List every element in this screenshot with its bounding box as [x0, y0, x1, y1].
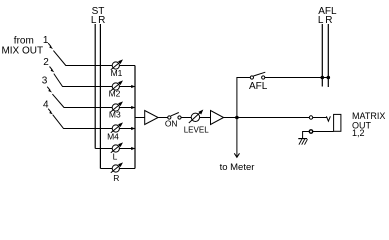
arrowhead to Meter: [234, 153, 239, 157]
op-amp buffer 2: [211, 111, 224, 125]
jack tip contact circle: [309, 116, 312, 119]
wire ON switch to LEVEL pot: [181, 117, 191, 119]
wire row R: [100, 168, 135, 170]
wire row M3: [64, 107, 135, 109]
junction arrow L: [131, 147, 135, 150]
wire input 2 stub arrow: [50, 67, 55, 73]
wire amp1 to ON switch: [158, 117, 168, 119]
junction dot AFL L: [321, 76, 325, 80]
wire summing bus: [134, 66, 136, 169]
jack tip V notch: [326, 116, 330, 121]
switch ON: [165, 113, 181, 129]
wire row M1: [66, 65, 136, 67]
wire AFL R vertical bus: [327, 24, 329, 87]
switch input 3 lever: [52, 94, 64, 107]
svg-text:1: 1: [43, 35, 49, 46]
svg-text:M1: M1: [111, 68, 123, 78]
label MATRIX OUT 1,2: [352, 111, 385, 138]
svg-text:M4: M4: [107, 132, 119, 142]
svg-text:R: R: [113, 173, 119, 183]
svg-text:L: L: [318, 15, 324, 26]
wire AFL branch vertical: [237, 78, 250, 118]
potentiometer M4: [107, 122, 123, 141]
svg-text:ON: ON: [165, 119, 178, 129]
potentiometer L: [111, 142, 123, 161]
wire row M2: [62, 86, 135, 88]
switch input 4 lever: [53, 115, 64, 129]
potentiometer LEVEL: [184, 110, 209, 135]
svg-text:L: L: [113, 151, 118, 161]
wire row L: [95, 148, 135, 150]
junction arrow M3: [131, 106, 135, 109]
svg-text:AFL: AFL: [249, 81, 268, 92]
label from MIX OUT: [1, 36, 43, 57]
potentiometer M2: [109, 80, 123, 98]
svg-text:M3: M3: [109, 110, 121, 120]
junction dot tap: [235, 116, 239, 120]
wire sleeve to ground: [303, 132, 310, 139]
ground: [298, 139, 307, 145]
wire tip contact: [313, 117, 327, 119]
wire AFL L vertical bus: [321, 24, 323, 87]
svg-text:R: R: [98, 15, 105, 26]
wire meter branch: [236, 118, 238, 157]
node AFL label: [318, 6, 337, 26]
junction dot AFL R: [327, 76, 331, 80]
wire row M4: [63, 128, 135, 130]
junction arrow M2: [131, 85, 135, 88]
wire sleeve contact: [313, 131, 334, 133]
svg-text:L: L: [91, 15, 97, 26]
potentiometer M1: [111, 59, 123, 78]
switch AFL: [249, 72, 268, 92]
wire ST R vertical bus: [99, 24, 101, 169]
wire amp2 to jack tip: [224, 117, 310, 119]
svg-text:1,2: 1,2: [352, 128, 365, 138]
wire input 4 stub arrow: [48, 109, 53, 115]
wire AFL switch to AFL buses: [265, 77, 329, 79]
svg-text:3: 3: [42, 76, 48, 87]
node ST label: [91, 6, 105, 26]
switch input 2 lever: [54, 74, 63, 87]
jack body: [334, 114, 341, 131]
wire LEVEL pot to amp2: [200, 117, 211, 119]
wire input 3 stub arrow: [47, 87, 52, 93]
op-amp buffer 1: [145, 111, 158, 125]
wire ST L vertical bus: [94, 24, 96, 149]
svg-text:M2: M2: [109, 89, 121, 99]
svg-text:2: 2: [43, 57, 49, 68]
svg-text:MIX OUT: MIX OUT: [1, 46, 43, 57]
svg-text:to Meter: to Meter: [220, 162, 255, 173]
potentiometer M3: [109, 101, 123, 119]
junction arrow M4: [131, 127, 135, 130]
potentiometer R: [111, 162, 123, 183]
jack sleeve contact circle: [309, 130, 312, 133]
wire bus to amp1: [135, 117, 145, 119]
svg-text:LEVEL: LEVEL: [184, 126, 209, 135]
wire input 1 stub arrow: [48, 43, 53, 49]
switch input 1 lever: [53, 51, 65, 66]
